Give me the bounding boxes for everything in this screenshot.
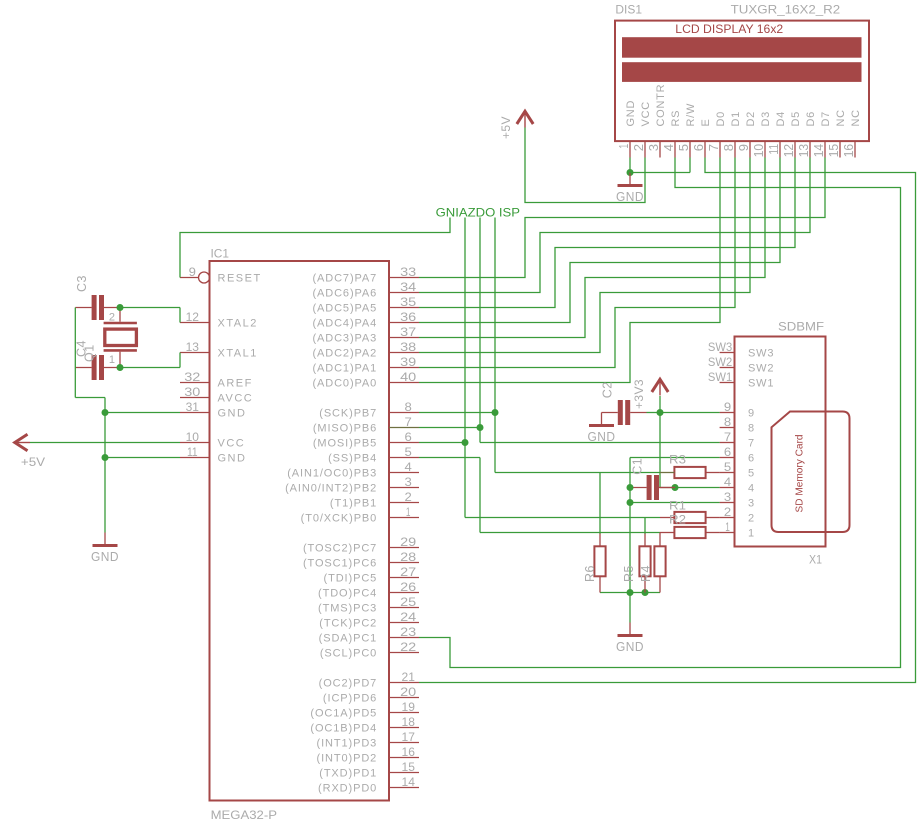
svg-text:TUXGR_16X2_R2: TUXGR_16X2_R2 [731, 2, 841, 16]
svg-text:(T0/XCK)PB0: (T0/XCK)PB0 [301, 513, 378, 525]
svg-text:3: 3 [724, 490, 732, 504]
svg-text:9: 9 [724, 400, 732, 414]
svg-text:(ADC5)PA5: (ADC5)PA5 [312, 303, 377, 315]
svg-text:14: 14 [402, 775, 416, 789]
svg-text:LCD DISPLAY 16x2: LCD DISPLAY 16x2 [675, 22, 783, 36]
svg-text:39: 39 [400, 355, 416, 369]
svg-text:1: 1 [748, 528, 755, 540]
svg-text:VCC: VCC [218, 438, 246, 450]
svg-text:6: 6 [724, 445, 732, 459]
svg-text:(ADC4)PA4: (ADC4)PA4 [312, 318, 377, 330]
svg-text:18: 18 [402, 715, 416, 729]
svg-text:23: 23 [400, 625, 416, 639]
svg-text:7: 7 [724, 430, 732, 444]
svg-text:RS: RS [670, 110, 682, 127]
svg-text:8: 8 [722, 144, 736, 151]
svg-text:9: 9 [189, 265, 197, 279]
svg-text:9: 9 [737, 144, 751, 151]
svg-text:8: 8 [724, 415, 732, 429]
svg-text:GND: GND [91, 550, 119, 564]
svg-text:D4: D4 [775, 111, 787, 127]
svg-text:11: 11 [767, 144, 781, 155]
svg-text:5: 5 [677, 144, 691, 151]
svg-text:6: 6 [748, 453, 755, 465]
svg-text:21: 21 [402, 670, 416, 684]
svg-text:4: 4 [724, 475, 732, 489]
svg-text:(ADC0)PA0: (ADC0)PA0 [312, 378, 377, 390]
svg-text:4: 4 [405, 460, 413, 474]
svg-text:MEGA32-P: MEGA32-P [211, 808, 277, 822]
svg-text:6: 6 [692, 144, 706, 151]
svg-text:16: 16 [842, 144, 856, 157]
svg-text:36: 36 [400, 310, 416, 324]
svg-text:+3V3: +3V3 [632, 379, 646, 409]
svg-text:RESET: RESET [218, 273, 262, 285]
svg-text:24: 24 [400, 610, 416, 624]
svg-text:C1: C1 [631, 458, 645, 475]
svg-text:GND: GND [616, 640, 644, 654]
svg-text:(TCK)PC2: (TCK)PC2 [319, 618, 377, 630]
svg-text:35: 35 [400, 295, 416, 309]
svg-text:GND: GND [616, 190, 644, 204]
svg-text:6: 6 [405, 430, 413, 444]
svg-text:15: 15 [402, 760, 416, 774]
svg-text:AVCC: AVCC [218, 393, 254, 405]
svg-text:27: 27 [400, 565, 416, 579]
svg-text:(INT0)PD2: (INT0)PD2 [317, 753, 378, 765]
svg-text:VCC: VCC [640, 101, 652, 126]
svg-text:C3: C3 [75, 275, 89, 292]
svg-text:(ADC3)PA3: (ADC3)PA3 [312, 333, 377, 345]
svg-text:GNIAZDO ISP: GNIAZDO ISP [436, 206, 520, 220]
svg-text:3: 3 [647, 144, 661, 151]
svg-text:13: 13 [797, 144, 811, 157]
svg-text:17: 17 [402, 730, 416, 744]
svg-text:+5V: +5V [499, 116, 513, 139]
svg-text:(TOSC2)PC7: (TOSC2)PC7 [303, 543, 377, 555]
svg-text:SW1: SW1 [748, 378, 774, 390]
svg-text:(ADC7)PA7: (ADC7)PA7 [312, 273, 377, 285]
svg-text:XTAL2: XTAL2 [218, 318, 258, 330]
svg-text:(ADC1)PA1: (ADC1)PA1 [312, 363, 377, 375]
svg-text:4: 4 [748, 483, 755, 495]
svg-text:C2: C2 [601, 381, 615, 398]
svg-text:(AIN0/INT2)PB2: (AIN0/INT2)PB2 [285, 483, 377, 495]
svg-text:SW2: SW2 [748, 363, 774, 375]
svg-text:GND: GND [218, 453, 247, 465]
svg-text:(SCL)PC0: (SCL)PC0 [320, 648, 377, 660]
svg-text:2: 2 [724, 505, 732, 519]
svg-text:(RXD)PD0: (RXD)PD0 [318, 783, 377, 795]
svg-text:7: 7 [707, 144, 721, 151]
svg-text:SDBMF: SDBMF [778, 320, 824, 334]
svg-text:(TMS)PC3: (TMS)PC3 [318, 603, 377, 615]
svg-text:D3: D3 [760, 111, 772, 127]
svg-text:D1: D1 [730, 111, 742, 127]
svg-text:NC: NC [835, 109, 847, 126]
svg-text:R3: R3 [669, 453, 686, 467]
svg-text:(SCK)PB7: (SCK)PB7 [319, 408, 377, 420]
svg-text:38: 38 [400, 340, 416, 354]
svg-text:D2: D2 [745, 111, 757, 127]
svg-text:13: 13 [186, 340, 200, 354]
svg-text:5: 5 [405, 445, 413, 459]
svg-text:2: 2 [632, 144, 646, 151]
svg-text:(OC1B)PD4: (OC1B)PD4 [310, 723, 377, 735]
svg-text:SW2: SW2 [708, 355, 733, 369]
svg-text:R4: R4 [639, 565, 653, 582]
svg-text:(TXD)PD1: (TXD)PD1 [319, 768, 377, 780]
svg-text:31: 31 [186, 400, 200, 414]
svg-text:(ICP)PD6: (ICP)PD6 [323, 693, 377, 705]
svg-text:(TDO)PC4: (TDO)PC4 [318, 588, 377, 600]
svg-text:(SS)PB4: (SS)PB4 [328, 453, 377, 465]
svg-text:(MOSI)PB5: (MOSI)PB5 [313, 438, 377, 450]
svg-text:R/W: R/W [685, 103, 697, 127]
svg-text:AREF: AREF [218, 378, 253, 390]
svg-text:E: E [700, 118, 712, 126]
svg-text:SW3: SW3 [708, 340, 733, 354]
svg-text:SD Memory Card: SD Memory Card [795, 435, 806, 513]
svg-text:(ADC6)PA6: (ADC6)PA6 [312, 288, 377, 300]
svg-text:2: 2 [405, 490, 413, 504]
svg-text:40: 40 [400, 370, 416, 384]
svg-text:(OC1A)PD5: (OC1A)PD5 [310, 708, 377, 720]
svg-text:4: 4 [662, 144, 676, 151]
svg-text:14: 14 [812, 144, 826, 157]
svg-text:5: 5 [724, 460, 732, 474]
svg-text:10: 10 [186, 430, 200, 444]
svg-text:NC: NC [850, 109, 862, 126]
svg-text:33: 33 [400, 265, 416, 279]
svg-text:16: 16 [402, 745, 416, 759]
svg-text:1: 1 [406, 505, 411, 519]
svg-text:28: 28 [400, 550, 416, 564]
svg-text:(SDA)PC1: (SDA)PC1 [319, 633, 378, 645]
svg-text:8: 8 [405, 400, 413, 414]
svg-text:8: 8 [748, 423, 755, 435]
svg-text:32: 32 [184, 370, 200, 384]
svg-text:CONTR: CONTR [655, 84, 667, 127]
svg-text:22: 22 [400, 640, 416, 654]
svg-text:25: 25 [400, 595, 416, 609]
svg-text:5: 5 [748, 468, 755, 480]
svg-text:2: 2 [109, 312, 116, 324]
svg-text:R2: R2 [669, 513, 686, 527]
svg-text:(MISO)PB6: (MISO)PB6 [313, 423, 377, 435]
svg-text:(AIN1/OC0)PB3: (AIN1/OC0)PB3 [287, 468, 377, 480]
svg-text:34: 34 [400, 280, 416, 294]
svg-text:3: 3 [748, 498, 755, 510]
svg-text:SW1: SW1 [708, 370, 733, 384]
svg-text:19: 19 [402, 700, 416, 714]
svg-text:2: 2 [748, 513, 755, 525]
svg-text:SW3: SW3 [748, 348, 774, 360]
svg-text:GND: GND [588, 430, 616, 444]
svg-text:26: 26 [400, 580, 416, 594]
svg-text:12: 12 [782, 144, 796, 157]
svg-text:R5: R5 [622, 565, 636, 582]
svg-text:D6: D6 [805, 111, 817, 127]
svg-text:(INT1)PD3: (INT1)PD3 [317, 738, 378, 750]
svg-text:(TDI)PC5: (TDI)PC5 [324, 573, 378, 585]
svg-text:(T1)PB1: (T1)PB1 [330, 498, 377, 510]
svg-text:R1: R1 [669, 499, 686, 513]
svg-text:(OC2)PD7: (OC2)PD7 [319, 678, 378, 690]
svg-text:D7: D7 [820, 111, 832, 127]
svg-text:IC1: IC1 [211, 246, 230, 260]
svg-text:XTAL1: XTAL1 [218, 348, 258, 360]
svg-text:D5: D5 [790, 111, 802, 127]
svg-text:7: 7 [748, 438, 755, 450]
svg-text:D0: D0 [715, 111, 727, 127]
svg-text:20: 20 [400, 685, 416, 699]
svg-text:10: 10 [752, 144, 766, 157]
svg-text:X1: X1 [809, 553, 822, 567]
svg-text:11: 11 [187, 445, 198, 459]
svg-text:7: 7 [405, 415, 413, 429]
svg-text:12: 12 [186, 310, 200, 324]
svg-text:29: 29 [400, 535, 416, 549]
svg-text:37: 37 [400, 325, 416, 339]
svg-text:1: 1 [725, 520, 730, 534]
svg-text:1: 1 [109, 354, 116, 366]
svg-text:R6: R6 [583, 565, 597, 582]
svg-text:Q1: Q1 [83, 344, 97, 362]
svg-text:30: 30 [184, 385, 200, 399]
svg-text:(ADC2)PA2: (ADC2)PA2 [312, 348, 377, 360]
svg-text:9: 9 [748, 408, 755, 420]
svg-text:+5V: +5V [21, 455, 45, 469]
svg-text:GND: GND [218, 408, 247, 420]
svg-text:(TOSC1)PC6: (TOSC1)PC6 [303, 558, 377, 570]
svg-text:DIS1: DIS1 [615, 2, 642, 16]
svg-text:15: 15 [827, 144, 841, 157]
svg-text:1: 1 [617, 144, 631, 149]
svg-text:3: 3 [405, 475, 413, 489]
svg-text:GND: GND [625, 100, 637, 127]
